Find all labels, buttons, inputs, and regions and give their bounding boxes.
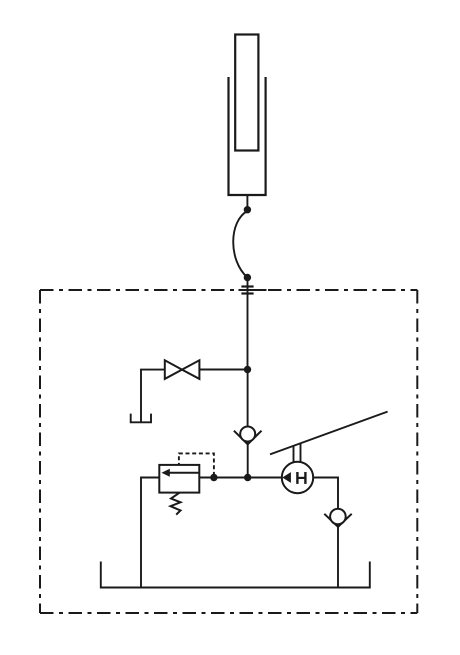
wire check valve 2 to tank [337,524,339,588]
cylinder piston rod [235,35,258,151]
wire pump outlet [313,478,338,510]
relief valve RV1 body [159,465,199,493]
cylinder body C1 [229,77,266,195]
wire needle valve to drain [141,370,165,423]
wire junction to needle valve [200,369,248,371]
node hose top [244,206,251,213]
hand pump P1 lever [270,412,388,455]
hand pump P1 body [282,462,313,493]
wire relief valve drain to tank [141,478,159,588]
node main junction [244,474,251,481]
check valve CV1 [234,427,262,445]
reservoir tank [101,562,370,588]
relief valve spring [171,493,181,515]
quick-disconnect coupling [241,287,253,294]
boundary solid run at coupling crossing [239,289,267,291]
wire rail (relief valve to pump) [199,477,282,479]
node hose bottom [244,274,251,281]
wire check valve to main junction [247,442,249,478]
wire hose to valve junction [247,278,249,370]
relief valve arrow [162,469,200,477]
relief valve pilot line (dashed) [179,453,214,475]
wire junction down to check valve [247,370,249,427]
node junction at needle valve [244,366,251,373]
node pilot tap [210,474,217,481]
hand pump label H [297,472,305,484]
flexible hose [233,211,247,278]
hand pump pivot links [293,446,295,462]
check valve CV2 [324,509,351,527]
vented drain (tank) [131,414,151,423]
hand pump flow triangle [282,472,291,483]
wire cylinder to hose [246,195,248,210]
enclosure boundary (dash-dot box) [40,290,417,613]
shut-off needle valve V1 [165,360,200,379]
